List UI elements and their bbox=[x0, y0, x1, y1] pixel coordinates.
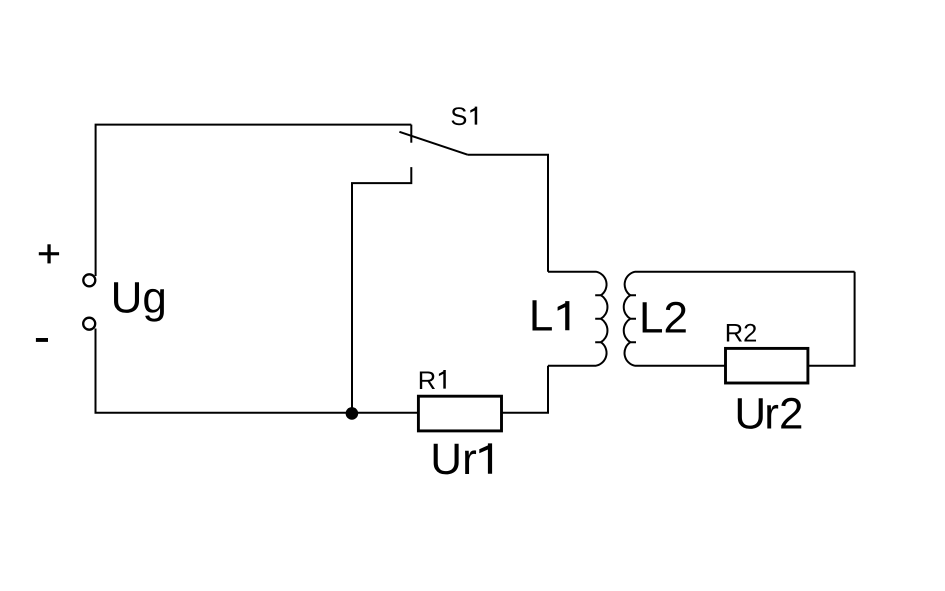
svg-text:Ug: Ug bbox=[111, 274, 167, 323]
svg-text:L2: L2 bbox=[639, 294, 688, 343]
svg-text:L: L bbox=[529, 292, 553, 341]
svg-text:R2: R2 bbox=[725, 320, 758, 348]
svg-text:U: U bbox=[734, 390, 766, 439]
svg-text:r2: r2 bbox=[764, 390, 803, 439]
svg-text:R: R bbox=[418, 367, 436, 395]
svg-text:S: S bbox=[450, 103, 467, 131]
svg-text:Ur: Ur bbox=[430, 435, 476, 484]
